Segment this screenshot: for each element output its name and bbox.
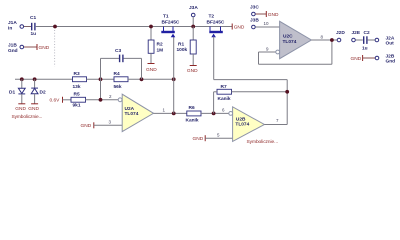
svg-text:9k1: 9k1 xyxy=(73,103,81,109)
svg-text:D2: D2 xyxy=(40,90,46,96)
capacitor C3 xyxy=(115,48,123,62)
svg-text:TL074: TL074 xyxy=(125,111,139,117)
connector J3A xyxy=(189,5,198,27)
node C1 junction xyxy=(53,25,57,29)
connector J2D xyxy=(336,30,345,42)
svg-text:T1: T1 xyxy=(163,14,169,20)
wire diode row xyxy=(15,78,73,80)
diode D1 xyxy=(9,79,25,104)
resistor R5 xyxy=(71,91,86,108)
node C3 right riser xyxy=(140,77,144,81)
svg-text:C2: C2 xyxy=(364,30,370,36)
connector J3C xyxy=(250,5,266,16)
connector J1B labels xyxy=(8,43,18,54)
wire R7 left riser xyxy=(213,92,215,114)
svg-text:D1: D1 xyxy=(9,90,15,96)
svg-text:BF245C: BF245C xyxy=(162,20,180,26)
node U2C output xyxy=(330,38,334,42)
svg-text:U2B: U2B xyxy=(236,116,246,122)
ground U2B pin5 xyxy=(193,135,233,142)
wire U2B output xyxy=(264,124,287,126)
svg-text:GND: GND xyxy=(15,106,26,112)
svg-text:J1B: J1B xyxy=(8,43,17,49)
connector J2B xyxy=(375,54,395,65)
svg-text:GND: GND xyxy=(187,68,198,74)
svg-text:1u: 1u xyxy=(362,45,368,51)
svg-text:U2A: U2A xyxy=(125,106,135,112)
svg-text:J3A: J3A xyxy=(189,5,198,11)
svg-text:J3B: J3B xyxy=(250,18,259,24)
node U2A output T1 gate xyxy=(172,112,176,116)
svg-text:R5: R5 xyxy=(74,91,80,97)
ground R1 xyxy=(187,66,198,74)
node D1 xyxy=(20,77,24,81)
connector J2A xyxy=(375,36,395,47)
svg-text:Gnd: Gnd xyxy=(386,59,396,65)
svg-text:0.6V: 0.6V xyxy=(50,98,61,104)
svg-text:13k: 13k xyxy=(73,84,81,90)
svg-text:100k: 100k xyxy=(177,47,188,53)
svg-text:R6: R6 xyxy=(189,105,195,111)
transistor T2 labels xyxy=(207,14,225,26)
svg-text:GND: GND xyxy=(81,123,92,129)
svg-text:Out: Out xyxy=(386,41,395,47)
svg-text:C1: C1 xyxy=(30,15,36,21)
wire main top run xyxy=(36,26,232,28)
resistor R2 xyxy=(148,27,163,64)
svg-text:R2: R2 xyxy=(157,42,163,48)
ground R2 xyxy=(146,64,157,73)
connector J1A labels xyxy=(8,20,17,31)
svg-text:TL074: TL074 xyxy=(283,39,297,45)
svg-text:BF245C: BF245C xyxy=(207,20,225,26)
ground D2 xyxy=(28,104,39,112)
svg-text:1u: 1u xyxy=(31,31,37,37)
node D2 xyxy=(33,77,37,81)
node R7 right xyxy=(285,90,289,94)
wire R3 to node xyxy=(87,78,115,80)
resistor R3 xyxy=(73,71,87,90)
node R3 R4 xyxy=(99,77,103,81)
resistor R4 xyxy=(114,71,129,90)
svg-text:GND: GND xyxy=(234,25,245,31)
connector J3B xyxy=(250,18,280,29)
wire J1A to C1 xyxy=(24,26,31,28)
svg-text:Kanik: Kanik xyxy=(218,96,231,102)
svg-text:C3: C3 xyxy=(115,48,121,54)
wire R6 to pin6 xyxy=(201,112,229,114)
svg-text:R3: R3 xyxy=(74,71,80,77)
wire R5 to U2A pin2 xyxy=(86,99,119,101)
wire R4 to T1 gate riser xyxy=(128,78,174,80)
svg-text:Kanik: Kanik xyxy=(186,118,199,124)
ground main wire end xyxy=(232,24,245,31)
op-amp U2C xyxy=(276,21,312,58)
svg-text:In: In xyxy=(8,25,12,31)
transistor T2 xyxy=(209,27,223,38)
svg-text:GND: GND xyxy=(146,67,157,73)
svg-text:GND: GND xyxy=(28,106,39,112)
svg-text:Symbolicznie...: Symbolicznie... xyxy=(247,139,279,145)
wire C3 feedback row xyxy=(101,58,142,99)
svg-text:T2: T2 xyxy=(209,14,215,20)
ground J2B xyxy=(351,55,376,62)
supply 0.6V xyxy=(50,97,72,104)
wire J2E to C2 xyxy=(356,39,363,41)
ground U2A pin3 xyxy=(81,122,123,129)
resistor R7 xyxy=(214,84,288,102)
node pin2 xyxy=(99,98,103,102)
svg-text:J3C: J3C xyxy=(250,5,259,11)
svg-text:R1: R1 xyxy=(178,41,184,47)
transistor T1 xyxy=(161,27,175,38)
transistor T1 labels xyxy=(162,14,180,26)
resistor R6 xyxy=(186,105,202,123)
wire T1 gate riser xyxy=(173,37,175,114)
svg-text:R4: R4 xyxy=(114,71,120,77)
svg-text:R7: R7 xyxy=(221,84,227,90)
wire C2 to J2A xyxy=(368,39,375,41)
resistor R1 xyxy=(177,27,197,66)
ground J3C xyxy=(266,11,279,18)
node J3A R1 xyxy=(191,25,195,29)
wire U2C output xyxy=(311,39,337,41)
node R6 R7 xyxy=(212,112,216,116)
diode D2 xyxy=(31,79,46,104)
wire T2 gate run xyxy=(214,37,288,125)
connector J2E xyxy=(352,30,361,42)
svg-text:GND: GND xyxy=(268,12,279,18)
connector J1B pin circle xyxy=(20,45,24,49)
wire J1B to GND xyxy=(24,46,37,48)
svg-text:GND: GND xyxy=(193,136,204,142)
capacitor C2 xyxy=(362,30,370,51)
wire U2C feedback xyxy=(259,40,332,64)
op-amp U2A xyxy=(118,94,153,131)
svg-text:GND: GND xyxy=(351,56,362,62)
capacitor C1 xyxy=(30,15,36,37)
node R2 top xyxy=(149,25,153,29)
svg-text:1M: 1M xyxy=(157,48,164,54)
dotted stub under C1 node xyxy=(54,30,56,67)
svg-text:J1A: J1A xyxy=(8,20,17,26)
node T1 gate crossing xyxy=(172,77,176,81)
svg-text:J2D: J2D xyxy=(336,30,345,36)
ground J1B xyxy=(37,44,50,51)
svg-text:10: 10 xyxy=(264,21,270,26)
svg-text:56k: 56k xyxy=(114,84,122,90)
wire U2A output xyxy=(154,112,187,114)
svg-text:Gnd: Gnd xyxy=(8,48,18,54)
svg-text:U2C: U2C xyxy=(283,33,293,39)
svg-text:J2E: J2E xyxy=(352,30,361,36)
ground D1 xyxy=(15,104,26,112)
svg-text:GND: GND xyxy=(39,45,50,51)
connector J1A pin circle xyxy=(20,25,24,29)
svg-text:Symbolicznie...: Symbolicznie... xyxy=(12,114,43,120)
svg-text:TL074: TL074 xyxy=(235,122,249,128)
op-amp U2B xyxy=(229,107,265,142)
